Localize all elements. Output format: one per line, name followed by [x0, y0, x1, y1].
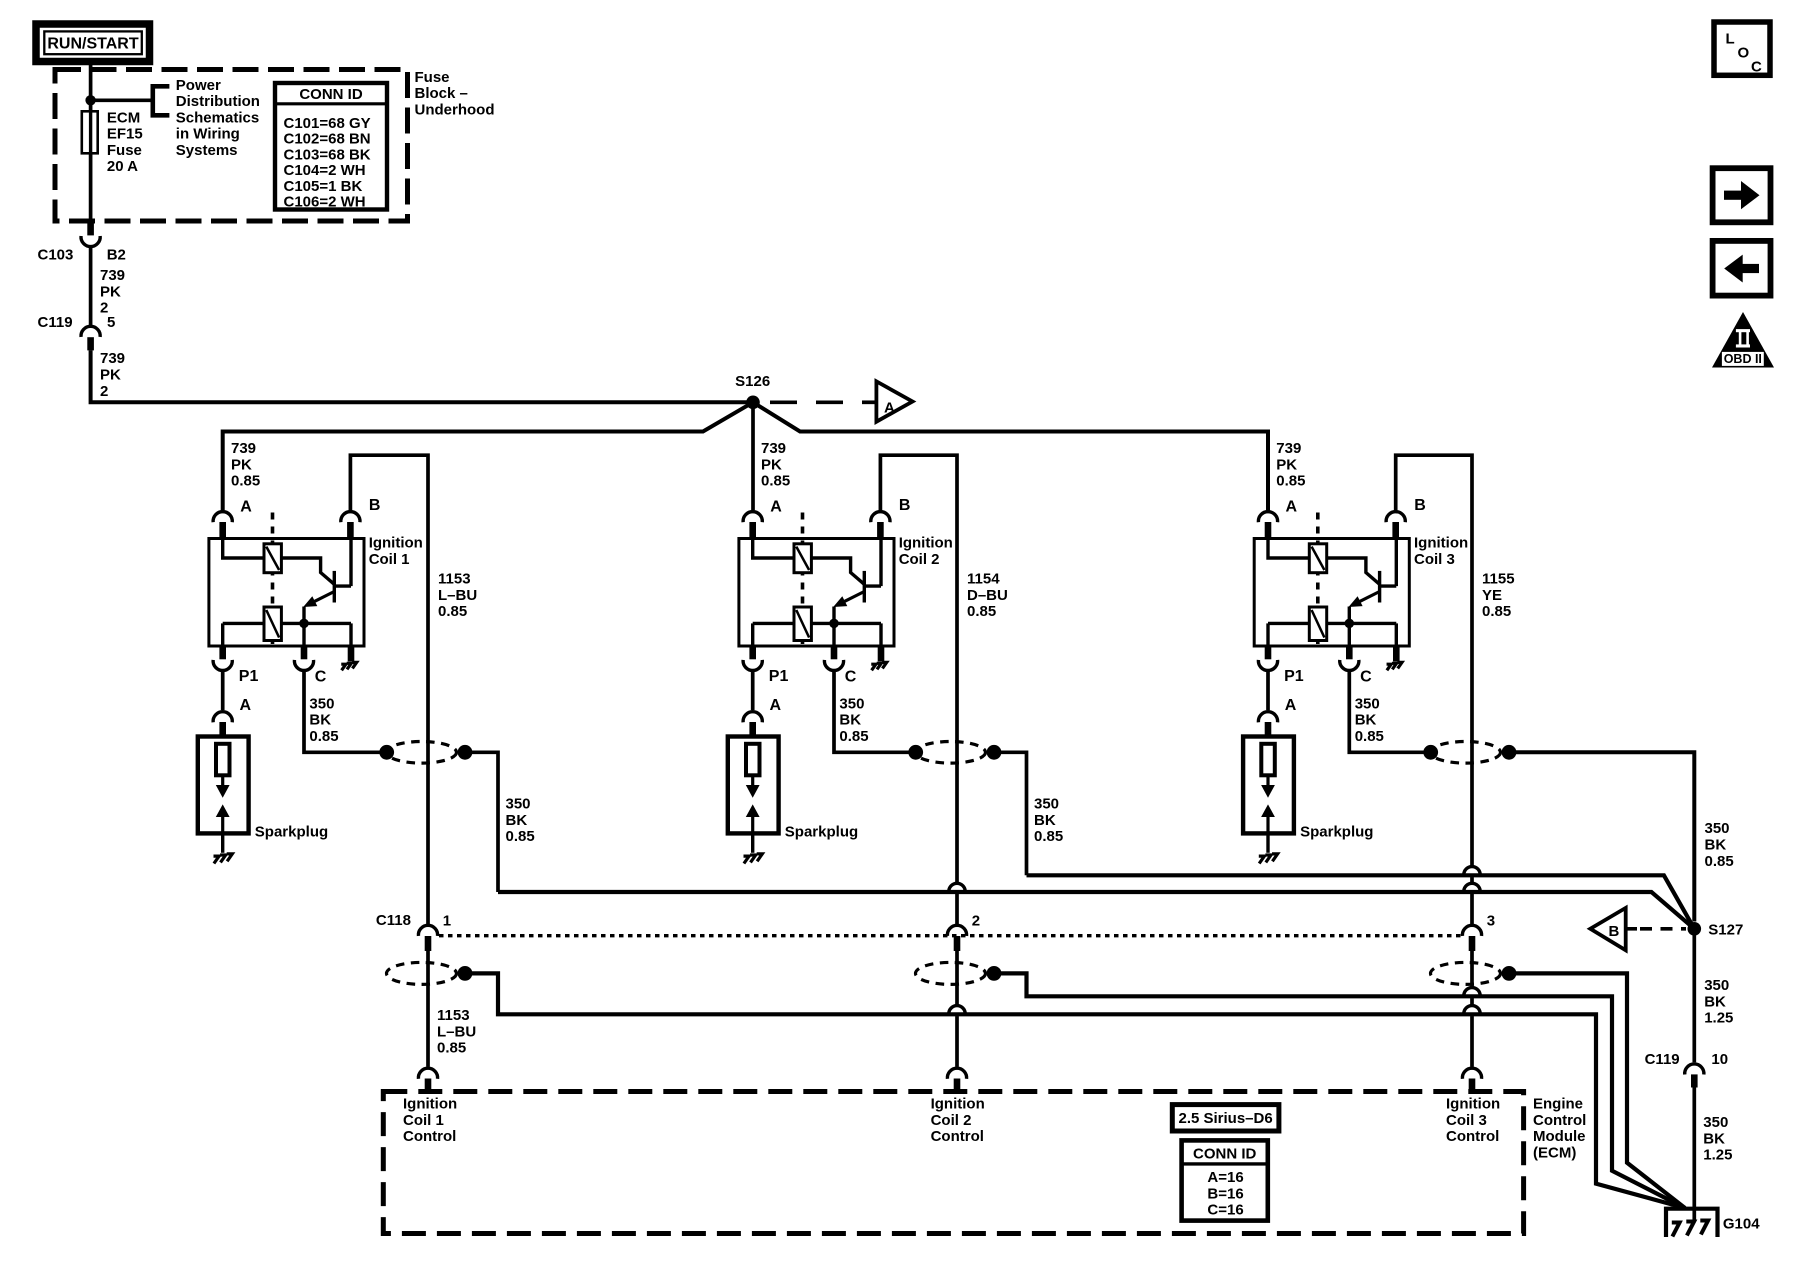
svg-text:350: 350	[1355, 695, 1380, 712]
dashed wire triangle B to S127	[1640, 927, 1686, 931]
svg-text:0.85: 0.85	[309, 728, 338, 745]
svg-text:1153: 1153	[438, 571, 471, 588]
sparkplug pin A connector (coil 2)	[743, 712, 762, 737]
svg-text:Power: Power	[176, 77, 221, 94]
coil 1 secondary winding	[223, 607, 351, 641]
wire 1155 control from coil 3 pin B to C118	[1396, 455, 1472, 867]
icon LOC box	[1714, 22, 1770, 76]
off-page connector triangle A	[876, 381, 912, 421]
label 739 PK 2	[100, 267, 125, 317]
node splice dot right (coil 2 crossover)	[987, 745, 1002, 760]
dashed wire to off-page connector A	[770, 400, 876, 404]
connector C118 pin 3	[1462, 925, 1481, 951]
svg-text:C103=68 BK: C103=68 BK	[284, 146, 371, 163]
wire fuse to C103	[89, 153, 93, 221]
node splice dot left (coil 1 crossover)	[379, 745, 394, 760]
wire shield drain of coil 1 to G104	[465, 973, 1685, 1208]
svg-text:C: C	[1360, 669, 1372, 686]
svg-text:C118: C118	[376, 912, 411, 929]
splice S127	[1688, 922, 1702, 936]
icon back arrow box	[1713, 241, 1771, 296]
svg-text:C: C	[1751, 59, 1762, 76]
wire P1 inner vertical (coil 1)	[221, 623, 224, 646]
ECM dashed box	[383, 1092, 1523, 1234]
svg-text:Ignition: Ignition	[1446, 1096, 1500, 1113]
svg-text:1153: 1153	[437, 1007, 470, 1024]
ground chassis (coil 3 internal)	[1387, 646, 1402, 670]
ground chassis (sparkplug 2)	[744, 856, 750, 863]
sparkplug pin A connector (coil 3)	[1258, 712, 1277, 737]
svg-text:B: B	[1414, 497, 1426, 514]
svg-text:(ECM): (ECM)	[1533, 1145, 1576, 1162]
wire internal ground vertical (coil 3)	[1395, 623, 1398, 646]
bracket for Power Distribution reference	[151, 84, 170, 118]
svg-text:O: O	[1738, 44, 1750, 61]
wire P1 to sparkplug (coil 3)	[1266, 671, 1270, 710]
svg-text:A: A	[884, 400, 895, 417]
svg-text:PK: PK	[231, 456, 252, 473]
svg-text:Control: Control	[403, 1128, 456, 1145]
off-page connector triangle B	[1590, 908, 1637, 950]
wire sparkplug 2 to ground	[751, 833, 754, 852]
wire control coil 3 from C118 to ECM	[1470, 951, 1474, 988]
svg-text:Systems: Systems	[176, 142, 238, 159]
wire 350 BK from coil 1 toward S127	[465, 752, 498, 892]
ignition coil 3 box	[1254, 539, 1409, 647]
svg-text:Engine: Engine	[1533, 1096, 1583, 1113]
svg-text:Coil 3: Coil 3	[1414, 551, 1455, 568]
svg-text:C=16: C=16	[1207, 1202, 1243, 1219]
ignition coil 2 box	[739, 539, 894, 647]
svg-text:A: A	[240, 498, 252, 515]
svg-text:350: 350	[309, 695, 334, 712]
label 1153 L&#8211;BU 0.85 (coil 1 control)	[438, 571, 477, 621]
label Ignition Coil 1	[369, 535, 423, 568]
sparkplug 1	[198, 737, 249, 834]
label 739 PK 2 (below C119)	[100, 350, 125, 400]
svg-text:C119: C119	[38, 314, 73, 331]
svg-text:L–BU: L–BU	[437, 1023, 476, 1040]
splice S126	[746, 396, 760, 410]
svg-text:BK: BK	[1703, 1130, 1725, 1147]
coil 2 pin A connector	[743, 512, 762, 539]
shield crossover ellipse (coil 1 C118 row)	[387, 962, 457, 984]
ignition coil 1 box	[209, 539, 364, 647]
svg-text:BK: BK	[506, 812, 528, 829]
svg-text:2: 2	[972, 913, 980, 930]
svg-text:Coil 2: Coil 2	[931, 1112, 972, 1129]
wire branch S126 to ignition coil 1	[223, 402, 753, 510]
wire 350 BK from coil 2 toward S127	[994, 752, 1027, 875]
svg-text:Ignition: Ignition	[403, 1096, 457, 1113]
svg-text:Ignition: Ignition	[899, 535, 953, 552]
wire junction to schematic-reference bracket	[91, 98, 153, 102]
label Ignition Coil 2	[899, 535, 953, 568]
svg-text:0.85: 0.85	[1705, 853, 1734, 870]
svg-text:Coil 1: Coil 1	[369, 551, 410, 568]
coil 1 transistor Q1	[281, 539, 351, 608]
label 739 PK 0.85 (coil 1 feed)	[231, 440, 260, 490]
label ECM EF15 Fuse 20 A	[107, 109, 143, 175]
label 350 BK 1.25 (below C119)	[1703, 1114, 1732, 1164]
svg-text:1154: 1154	[967, 571, 1000, 588]
svg-text:Sparkplug: Sparkplug	[785, 824, 858, 841]
wire from RUN/START into fuse block	[89, 62, 93, 112]
label 350 BK 0.85 (coil 1 jog)	[506, 796, 535, 846]
wire 350 BK coil 1 long run to S127	[498, 892, 1694, 929]
coil 3 secondary winding	[1268, 607, 1396, 641]
node shield drain dot (coil 2)	[987, 966, 1002, 981]
wire emitter to pin C (coil 1)	[302, 607, 305, 647]
power source RUN/START box	[36, 24, 150, 62]
svg-text:C104=2 WH: C104=2 WH	[284, 162, 366, 179]
icon OBD II triangle	[1712, 312, 1774, 368]
svg-text:BK: BK	[1034, 812, 1056, 829]
sparkplug 3	[1243, 737, 1294, 834]
svg-text:Ignition: Ignition	[931, 1096, 985, 1113]
sparkplug pin A connector (coil 1)	[213, 712, 232, 737]
label 739 PK 0.85 (coil 3 feed)	[1276, 440, 1305, 490]
label 350 BK 0.85 (coil 1 pin C wire)	[309, 695, 338, 745]
fuse block underhood dashed box	[55, 70, 408, 222]
svg-text:2.5 Sirius–D6: 2.5 Sirius–D6	[1178, 1110, 1272, 1127]
node splice dot left (coil 3 crossover)	[1423, 745, 1438, 760]
svg-text:OBD II: OBD II	[1724, 352, 1762, 366]
svg-text:C119: C119	[1645, 1051, 1680, 1068]
svg-text:A: A	[1286, 498, 1298, 515]
svg-text:0.85: 0.85	[1276, 473, 1305, 490]
node splice dot left (coil 2 crossover)	[908, 745, 923, 760]
label 350 BK 1.25 (above C119)	[1704, 977, 1733, 1027]
ground chassis (sparkplug 3)	[1259, 856, 1265, 863]
wire 350 BK coil 2 long run to S127	[1027, 875, 1695, 929]
label 350 BK 0.85 (coil 2 pin C wire)	[839, 695, 868, 745]
svg-text:A: A	[770, 498, 782, 515]
svg-text:0.85: 0.85	[967, 603, 996, 620]
svg-text:YE: YE	[1482, 587, 1502, 604]
sparkplug 2	[728, 737, 779, 834]
node shield drain dot (coil 1)	[458, 966, 473, 981]
coil 3 pin P1 connector	[1258, 646, 1277, 670]
svg-text:in Wiring: in Wiring	[176, 126, 240, 143]
svg-text:L: L	[1726, 30, 1735, 47]
wire control coil 2 from C118 to ECM	[955, 951, 959, 1006]
svg-text:350: 350	[1034, 796, 1059, 813]
svg-text:S126: S126	[735, 373, 770, 390]
svg-text:1155: 1155	[1482, 571, 1515, 588]
svg-text:C101=68 GY: C101=68 GY	[284, 115, 371, 132]
svg-text:Fuse: Fuse	[107, 142, 142, 159]
connector C119 pin 10	[1685, 1064, 1704, 1088]
svg-text:C106=2 WH: C106=2 WH	[284, 194, 366, 211]
svg-text:0.85: 0.85	[1034, 828, 1063, 845]
svg-text:B: B	[1609, 923, 1620, 940]
coil 3 core dashed line	[1316, 513, 1320, 645]
wire branch S126 to ignition coil 3	[753, 402, 1268, 510]
wire sparkplug 3 to ground	[1266, 833, 1269, 852]
svg-text:ECM: ECM	[107, 109, 140, 126]
node splice dot right (coil 1 crossover)	[458, 745, 473, 760]
connector table CONN ID (fuse block)	[275, 83, 387, 211]
label 1155 YE 0.85 (coil 3 control)	[1482, 571, 1515, 621]
svg-text:BK: BK	[309, 712, 331, 729]
svg-text:20 A: 20 A	[107, 158, 138, 175]
label 739 PK 0.85 (coil 2 feed)	[761, 440, 790, 490]
svg-text:350: 350	[839, 695, 864, 712]
wire 739 PK 2 between C103 and C119	[89, 248, 93, 326]
svg-text:Coil 3: Coil 3	[1446, 1112, 1487, 1129]
connector C103 pin B2	[81, 223, 100, 247]
svg-text:A: A	[1285, 697, 1297, 714]
svg-text:1.25: 1.25	[1704, 1010, 1733, 1027]
svg-text:Distribution: Distribution	[176, 93, 260, 110]
svg-text:P1: P1	[239, 668, 259, 685]
wire pin C of coil 3 to harness crossover	[1349, 671, 1430, 752]
svg-text:Coil 2: Coil 2	[899, 551, 940, 568]
ground G104	[1666, 1209, 1718, 1237]
node junction dot secondary (coil 3)	[1345, 619, 1355, 629]
label box 2.5 Sirius-D6	[1172, 1105, 1279, 1131]
connector ECM ignition coil 1 control pin	[418, 1068, 437, 1093]
svg-text:3: 3	[1487, 913, 1495, 930]
wire sparkplug 1 to ground	[221, 833, 224, 852]
svg-text:C102=68 BN: C102=68 BN	[284, 131, 371, 148]
label Ignition Coil 1 Control	[403, 1096, 457, 1146]
svg-text:BK: BK	[1705, 837, 1727, 854]
wire P1 to sparkplug (coil 1)	[221, 671, 225, 710]
svg-text:5: 5	[107, 314, 115, 331]
svg-text:350: 350	[506, 796, 531, 813]
label Ignition Coil 3	[1414, 535, 1468, 568]
svg-text:0.85: 0.85	[761, 473, 790, 490]
svg-text:A: A	[770, 697, 782, 714]
svg-text:Control: Control	[931, 1128, 984, 1145]
svg-text:PK: PK	[1276, 456, 1297, 473]
fuse ECM EF15 20 A	[82, 111, 98, 153]
coil 1 pin B connector	[341, 512, 360, 539]
svg-text:B: B	[899, 497, 911, 514]
wire 1153 control from coil 1 pin B to C118	[350, 455, 428, 924]
coil 2 transistor Q2	[811, 539, 881, 608]
svg-text:P1: P1	[769, 668, 789, 685]
svg-text:2: 2	[100, 383, 108, 400]
label 350 BK 0.85 (coil 3 pin C wire)	[1355, 695, 1384, 745]
label Ignition Coil 2 Control	[931, 1096, 985, 1146]
ground chassis (coil 1 internal)	[341, 646, 356, 670]
svg-text:Control: Control	[1446, 1128, 1499, 1145]
svg-text:0.85: 0.85	[839, 728, 868, 745]
svg-text:0.85: 0.85	[437, 1040, 466, 1057]
coil 1 pin P1 connector	[213, 646, 232, 670]
node shield drain dot (coil 3)	[1502, 966, 1517, 981]
label Ignition Coil 3 Control	[1446, 1096, 1500, 1146]
svg-text:Coil 1: Coil 1	[403, 1112, 444, 1129]
wire P1 to sparkplug (coil 2)	[751, 671, 755, 710]
connector ECM ignition coil 2 control pin	[947, 1068, 966, 1093]
svg-text:PK: PK	[100, 283, 121, 300]
svg-text:350: 350	[1704, 977, 1729, 994]
wire shield drain of coil 3 to G104	[1509, 973, 1685, 1208]
node junction dot secondary (coil 2)	[829, 619, 839, 629]
svg-text:BK: BK	[1355, 712, 1377, 729]
svg-text:1.25: 1.25	[1703, 1147, 1732, 1164]
svg-text:Schematics: Schematics	[176, 109, 259, 126]
svg-text:Block –: Block –	[415, 85, 468, 102]
svg-text:739: 739	[1276, 440, 1301, 457]
wire branch S126 to ignition coil 2	[751, 402, 755, 510]
coil 2 primary winding	[753, 539, 812, 573]
coil 3 pin B connector	[1386, 512, 1405, 539]
svg-text:RUN/START: RUN/START	[47, 36, 138, 53]
svg-text:EF15: EF15	[107, 126, 143, 143]
coil 3 pin C connector	[1340, 646, 1359, 670]
wire internal ground vertical (coil 1)	[349, 623, 352, 646]
label 350 BK 0.85 (coil 2 jog)	[1034, 796, 1063, 846]
wire 739 PK 2 from C119 to S126	[91, 350, 753, 402]
coil 2 pin P1 connector	[743, 646, 762, 670]
svg-text:Underhood: Underhood	[415, 102, 495, 119]
svg-text:Module: Module	[1533, 1128, 1586, 1145]
wire 350 BK 1.25 C119 to G104	[1692, 1088, 1696, 1221]
coil 1 pin C connector	[294, 646, 313, 670]
coil 3 transistor Q3	[1327, 539, 1397, 608]
svg-text:B2: B2	[107, 246, 126, 263]
wire P1 inner vertical (coil 2)	[751, 623, 754, 646]
shield crossover ellipse (coil 2 C118 row)	[916, 962, 986, 984]
svg-text:Sparkplug: Sparkplug	[255, 824, 328, 841]
svg-text:739: 739	[761, 440, 786, 457]
node junction dot secondary (coil 1)	[299, 619, 309, 629]
wire control coil 1 from C118 to ECM	[426, 951, 430, 1067]
svg-text:CONN ID: CONN ID	[1193, 1145, 1257, 1162]
svg-text:A: A	[240, 697, 252, 714]
svg-text:PK: PK	[761, 456, 782, 473]
svg-text:10: 10	[1711, 1051, 1728, 1068]
connector C119 pin 5	[81, 326, 100, 350]
svg-text:Ignition: Ignition	[369, 535, 423, 552]
svg-text:D–BU: D–BU	[967, 587, 1008, 604]
connector C118 pin 2	[947, 925, 966, 951]
svg-text:A=16: A=16	[1207, 1169, 1243, 1186]
connector ECM ignition coil 3 control pin	[1462, 1068, 1481, 1093]
svg-text:Fuse: Fuse	[415, 69, 450, 86]
svg-text:0.85: 0.85	[506, 828, 535, 845]
label Engine Control Module (ECM)	[1533, 1096, 1586, 1162]
coil 3 pin A connector	[1258, 512, 1277, 539]
svg-text:350: 350	[1703, 1114, 1728, 1131]
svg-text:C: C	[315, 669, 327, 686]
shield crossover ellipse (coil 1 sparkplug row)	[387, 742, 457, 764]
wire 350 BK from coil 3 to S127	[1509, 752, 1694, 921]
svg-text:PK: PK	[100, 367, 121, 384]
ground chassis (coil 2 internal)	[871, 646, 886, 670]
wire pin C of coil 2 to harness crossover	[834, 671, 916, 752]
coil 2 pin B connector	[871, 512, 890, 539]
icon forward arrow box	[1713, 168, 1771, 222]
svg-text:1: 1	[443, 913, 451, 930]
coil 1 primary winding	[223, 539, 282, 573]
svg-text:C103: C103	[38, 246, 74, 263]
svg-text:B=16: B=16	[1207, 1185, 1243, 1202]
svg-text:Control: Control	[1533, 1112, 1586, 1129]
wire 1154 control from coil 2 pin B to C118	[880, 455, 957, 884]
wire P1 inner vertical (coil 3)	[1266, 623, 1269, 646]
wire emitter to pin C (coil 3)	[1348, 607, 1351, 647]
svg-text:C105=1 BK: C105=1 BK	[284, 178, 363, 195]
svg-text:C: C	[845, 669, 857, 686]
node splice dot right (coil 3 crossover)	[1502, 745, 1517, 760]
svg-text:P1: P1	[1284, 668, 1304, 685]
shield crossover ellipse (coil 3 C118 row)	[1431, 962, 1501, 984]
ground chassis (sparkplug 1)	[214, 856, 220, 863]
svg-text:G104: G104	[1723, 1216, 1760, 1233]
svg-text:L–BU: L–BU	[438, 587, 477, 604]
svg-text:BK: BK	[1704, 993, 1726, 1010]
shield crossover ellipse (coil 3 sparkplug row)	[1431, 742, 1501, 764]
svg-text:S127: S127	[1708, 921, 1743, 938]
svg-text:0.85: 0.85	[438, 603, 467, 620]
label 1153 L-BU 0.85 (below C118)	[437, 1007, 476, 1057]
connector C118 dotted boundary line	[439, 934, 1461, 937]
svg-text:0.85: 0.85	[1355, 728, 1384, 745]
label 350 BK 0.85 (coil 3)	[1705, 820, 1734, 870]
coil 3 primary winding	[1268, 539, 1327, 573]
svg-text:BK: BK	[839, 712, 861, 729]
svg-text:350: 350	[1705, 820, 1730, 837]
svg-text:Sparkplug: Sparkplug	[1300, 824, 1373, 841]
svg-text:CONN ID: CONN ID	[299, 86, 363, 103]
svg-text:0.85: 0.85	[1482, 603, 1511, 620]
wire emitter to pin C (coil 2)	[832, 607, 835, 647]
connector C118 pin 1	[418, 925, 437, 951]
shield crossover ellipse (coil 2 sparkplug row)	[916, 742, 986, 764]
coil 2 pin C connector	[824, 646, 843, 670]
coil 2 secondary winding	[753, 607, 881, 641]
connector table CONN ID (ECM)	[1182, 1140, 1268, 1220]
wire 350 BK 1.25 S127 to C119 pin 10	[1692, 929, 1696, 1063]
label 1154 D&#8211;BU 0.85 (coil 2 control)	[967, 571, 1008, 621]
wire pin C of coil 1 to harness crossover	[304, 671, 387, 752]
svg-text:Ignition: Ignition	[1414, 535, 1468, 552]
svg-text:0.85: 0.85	[231, 473, 260, 490]
svg-text:B: B	[369, 497, 381, 514]
svg-text:739: 739	[231, 440, 256, 457]
wire internal ground vertical (coil 2)	[879, 623, 882, 646]
svg-text:739: 739	[100, 350, 125, 367]
coil 1 pin A connector	[213, 512, 232, 539]
wire shield drain of coil 2 to G104	[994, 973, 1685, 1208]
label Fuse Block - Underhood	[415, 69, 495, 119]
node junction dot at fuse feed	[85, 95, 95, 105]
coil 1 core dashed line	[271, 513, 275, 645]
label Power Distribution Schematics in Wiring Systems	[176, 77, 260, 159]
svg-text:739: 739	[100, 267, 125, 284]
coil 2 core dashed line	[801, 513, 805, 645]
